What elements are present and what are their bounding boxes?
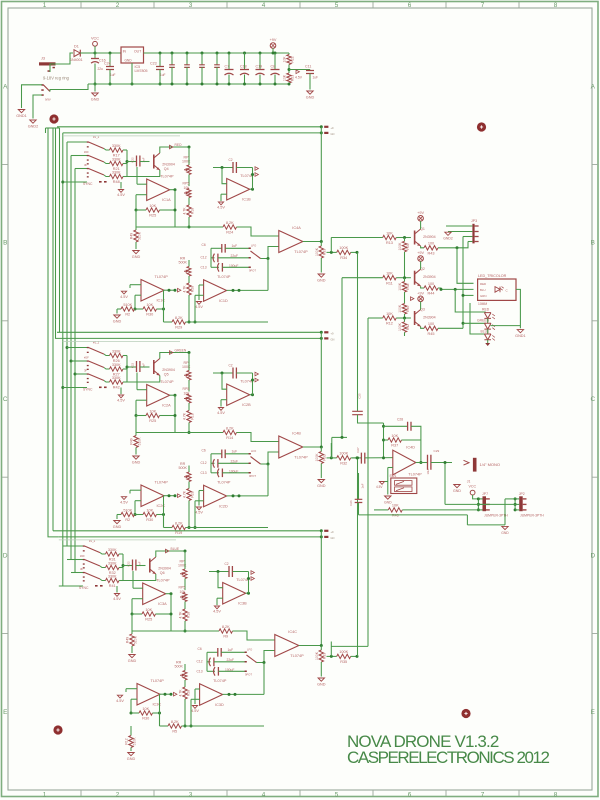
- resistor R34 100K mix IC4C: [337, 654, 351, 658]
- switch common to IC4A +input: [261, 247, 279, 259]
- capacitor C24 1uF: [109, 52, 112, 55]
- svg-text:100K: 100K: [178, 564, 187, 568]
- svg-text:IC1B: IC1B: [242, 198, 251, 202]
- svg-text:4.5V: 4.5V: [195, 511, 203, 515]
- svg-text:JUMPER-3PTH: JUMPER-3PTH: [520, 514, 544, 518]
- svg-text:R34: R34: [340, 256, 347, 260]
- ground below R49: [129, 655, 135, 658]
- regulator IC5 LM7805: [121, 47, 144, 63]
- output IC1C: [164, 289, 175, 291]
- svg-text:R25: R25: [145, 618, 152, 622]
- switch bank wire stubs IC1: [67, 141, 87, 143]
- SYNC pads IC3: [95, 585, 98, 587]
- svg-text:R38: R38: [406, 284, 410, 290]
- svg-text:R29: R29: [175, 326, 182, 330]
- svg-text:TL074P: TL074P: [294, 456, 308, 460]
- svg-text:R30: R30: [146, 313, 153, 317]
- svg-text:GND: GND: [127, 757, 136, 761]
- svg-text:IC3D: IC3D: [215, 703, 224, 707]
- range switch IC1: [249, 248, 251, 250]
- resistor R27 330K: [104, 368, 110, 370]
- svg-text:330K: 330K: [108, 574, 117, 578]
- switch group frame line IC2: [63, 340, 180, 342]
- switch group frame line IC1: [63, 135, 180, 137]
- resistor R33 100K vertical IC4A: [320, 242, 322, 247]
- svg-text:R43: R43: [428, 251, 435, 255]
- resistor R25 10K IC3: [132, 613, 142, 615]
- svg-text:IC1D: IC1D: [219, 299, 228, 303]
- svg-text:4.7K: 4.7K: [183, 207, 187, 215]
- net flag 4.5V under switches IC3: [116, 586, 118, 593]
- wire switch common to GND rail: [50, 84, 88, 92]
- svg-text:GND1: GND1: [16, 114, 27, 118]
- left bus vertical switch row 1 net: [66, 142, 68, 546]
- svg-text:GND: GND: [317, 484, 326, 488]
- svg-text:500K: 500K: [179, 261, 188, 265]
- capacitor C27 1uF coupling: [352, 457, 361, 459]
- left bus vertical to block2 pair high: [59, 128, 61, 332]
- output junction IC4B: [303, 446, 322, 448]
- svg-text:4.5V: 4.5V: [117, 193, 125, 197]
- svg-text:7: 7: [481, 791, 485, 798]
- resistor R21 330K: [104, 162, 110, 164]
- svg-text:9POT: 9POT: [245, 673, 252, 677]
- left bus vertical to block2 pair low: [56, 128, 63, 338]
- frame column ticks: [81, 2, 519, 796]
- svg-text:5: 5: [335, 2, 339, 9]
- svg-text:JP2: JP2: [519, 492, 525, 496]
- svg-text:R28: R28: [190, 286, 194, 292]
- wire block1 mix output down: [357, 252, 359, 411]
- svg-text:100K: 100K: [339, 452, 348, 456]
- svg-text:BLUE: BLUE: [171, 547, 180, 551]
- node output bus start IC4A: [320, 127, 322, 242]
- svg-text:10K: 10K: [142, 707, 149, 711]
- svg-text:C13: C13: [201, 471, 207, 475]
- svg-text:R45: R45: [428, 332, 435, 336]
- svg-text:C: C: [3, 396, 8, 403]
- feedback rail y227 IC2: [135, 416, 137, 433]
- resistor R34 100K mix IC4A: [337, 250, 351, 254]
- wire into IC4D input node: [383, 423, 385, 458]
- svg-text:1uF: 1uF: [228, 648, 234, 652]
- output jack J1 quarter inch mono: [464, 460, 470, 465]
- ground under SW1: [387, 488, 389, 495]
- svg-text:TL074P: TL074P: [151, 679, 165, 683]
- svg-text:E: E: [3, 709, 7, 716]
- svg-text:330K: 330K: [108, 548, 117, 552]
- switch common to IC4B +input: [261, 452, 279, 464]
- svg-text:510K: 510K: [132, 737, 136, 746]
- op-amp IC2D TL074P: [204, 485, 227, 507]
- svg-text:BLU: BLU: [480, 288, 486, 292]
- non-inverting input IC1B from 4.5V: [221, 193, 227, 195]
- svg-text:GN: GN: [331, 338, 335, 342]
- svg-text:R24: R24: [226, 231, 233, 235]
- op-amp IC1D TL074P: [204, 280, 227, 302]
- capacitor C23 1uF: [159, 52, 162, 55]
- ground at R2: [116, 515, 118, 520]
- resistor R17 330K: [104, 149, 110, 150]
- svg-text:4.7K: 4.7K: [183, 490, 187, 498]
- svg-text:R42: R42: [406, 324, 410, 330]
- capacitor C-osc IC1 1uF: [127, 161, 137, 163]
- svg-text:R9: R9: [223, 635, 228, 639]
- svg-text:22u: 22u: [98, 67, 104, 71]
- svg-text:R12: R12: [125, 738, 129, 744]
- svg-text:R30: R30: [146, 518, 153, 522]
- svg-text:R37: R37: [391, 444, 398, 448]
- svg-text:9-18V reg ring: 9-18V reg ring: [43, 76, 70, 81]
- svg-text:3F: 3F: [84, 163, 88, 167]
- svg-text:R44: R44: [428, 292, 435, 296]
- svg-text:D: D: [3, 553, 8, 560]
- svg-text:2: 2: [116, 2, 120, 9]
- op-amp IC3C TL074P: [137, 684, 160, 706]
- svg-text:4.7K: 4.7K: [183, 412, 187, 420]
- output IC2C: [164, 495, 175, 497]
- svg-text:510K: 510K: [133, 635, 137, 644]
- svg-text:C18: C18: [240, 65, 247, 69]
- svg-text:2N3904: 2N3904: [423, 235, 436, 239]
- svg-text:1/4" MONO: 1/4" MONO: [480, 462, 501, 467]
- ground below R33 IC4C: [318, 678, 324, 681]
- svg-text:GND: GND: [317, 278, 326, 282]
- net flag RED: [170, 145, 173, 149]
- non-inverting input IC3B from 4.5V: [217, 597, 223, 599]
- inverting input IC2B: [222, 373, 227, 389]
- svg-text:GND: GND: [317, 682, 326, 686]
- op-amp IC4C TL074P mixer buffer: [275, 635, 299, 657]
- LED stack cathode arrow: [487, 340, 489, 343]
- svg-text:R42: R42: [113, 386, 120, 390]
- transistor Q2 2N3904: [414, 271, 416, 285]
- svg-text:8: 8: [554, 791, 558, 798]
- output IC2D wire to switch column: [227, 495, 268, 497]
- svg-text:SYNC: SYNC: [83, 182, 93, 186]
- svg-text:#2F: #2F: [84, 355, 89, 359]
- net flag 4.5V at bias chain: [411, 297, 414, 301]
- svg-text:10MM: 10MM: [478, 302, 487, 306]
- resistor R31 330K: [100, 553, 106, 554]
- emitter wire of Q6: [123, 574, 156, 581]
- junction 330K common IC1: [126, 150, 128, 177]
- wire JP3 pin4 from Q1 emitter: [468, 241, 472, 243]
- svg-text:5: 5: [335, 791, 339, 798]
- svg-text:330K: 330K: [112, 349, 121, 353]
- output capacitor C29: [428, 455, 431, 470]
- op-amp IC2B TL074P: [227, 384, 250, 406]
- svg-text:2N3904: 2N3904: [423, 316, 436, 320]
- svg-text:1uF: 1uF: [232, 450, 238, 454]
- svg-text:100: 100: [428, 282, 434, 286]
- svg-text:7: 7: [481, 2, 485, 9]
- svg-text:1uF: 1uF: [160, 73, 166, 77]
- svg-text:4: 4: [262, 2, 266, 9]
- bus pair top of block IC1: [57, 126, 321, 128]
- resistor R12 10K base of Q3: [368, 317, 383, 319]
- svg-text:10K: 10K: [146, 303, 153, 307]
- wire block2 mix to summing: [332, 436, 347, 438]
- ground below R33 IC4B: [318, 480, 324, 483]
- svg-text:2N3904: 2N3904: [162, 368, 175, 372]
- svg-text:500K: 500K: [179, 466, 188, 470]
- frame row ticks: [2, 164, 598, 633]
- svg-text:+9V: +9V: [270, 38, 277, 42]
- svg-text:IN: IN: [123, 50, 127, 54]
- svg-text:IC3A: IC3A: [158, 602, 167, 606]
- svg-text:GND: GND: [501, 531, 509, 535]
- svg-text:GND: GND: [384, 500, 392, 504]
- svg-text:VCC: VCC: [91, 37, 99, 41]
- resistor R49 510K IC2: [135, 433, 137, 436]
- wire Q3 emitter to LED box GRN: [438, 327, 463, 329]
- svg-text:R32: R32: [340, 462, 347, 466]
- wire JP3 pin1: [446, 225, 472, 227]
- svg-text:510K: 510K: [137, 231, 141, 240]
- resistor R30 10K IC3: [131, 712, 140, 714]
- svg-text:8.2K: 8.2K: [222, 625, 230, 629]
- op-amp IC4D TL074P output: [393, 450, 416, 475]
- svg-text:C2: C2: [229, 158, 233, 162]
- potentiometer RP5 10K IC1: [188, 175, 190, 187]
- svg-text:10K: 10K: [145, 608, 152, 612]
- svg-text:C27: C27: [356, 447, 360, 453]
- svg-text:R33: R33: [323, 653, 327, 659]
- svg-text:B: B: [3, 240, 7, 247]
- svg-text:C12: C12: [197, 660, 203, 664]
- svg-text:R18: R18: [190, 413, 194, 419]
- svg-text:100K: 100K: [182, 160, 191, 164]
- resistor R33 100K vertical IC4B: [320, 447, 322, 452]
- svg-text:10K: 10K: [283, 56, 287, 63]
- svg-text:#2F: #2F: [84, 150, 89, 154]
- svg-text:R40: R40: [406, 306, 410, 312]
- op-amp IC3D TL074P: [200, 684, 223, 706]
- svg-text:R41: R41: [109, 584, 116, 588]
- svg-text:100: 100: [428, 322, 434, 326]
- transistor Q6 2N3904: [149, 559, 151, 573]
- resistor R49 510K IC1: [135, 227, 137, 230]
- VCC supply symbol: [93, 41, 98, 46]
- svg-text:4: 4: [262, 791, 266, 798]
- svg-text:C12: C12: [201, 461, 207, 465]
- net flag 4.5V divider: [296, 70, 299, 74]
- range switch IC2: [249, 453, 251, 455]
- svg-text:C6: C6: [198, 647, 202, 651]
- op-amp IC1C TL074P: [141, 280, 164, 302]
- svg-text:10K: 10K: [283, 74, 287, 81]
- svg-text:330K: 330K: [112, 363, 121, 367]
- resistor R28 4.7K vertical IC3: [184, 680, 186, 687]
- svg-text:3F: 3F: [80, 567, 84, 571]
- svg-text:100K: 100K: [398, 282, 402, 291]
- svg-text:R39: R39: [406, 243, 410, 249]
- svg-text:8.2K: 8.2K: [175, 316, 183, 320]
- svg-text:RED: RED: [480, 282, 486, 286]
- svg-text:4.5V: 4.5V: [195, 305, 203, 309]
- op-amp IC3A TL074P: [143, 583, 166, 605]
- range switch IC3: [245, 652, 247, 654]
- resistor R30 10K IC1: [135, 308, 144, 310]
- output IC3B with net flags: [246, 592, 249, 594]
- +9V supply at Q1 collector: [418, 216, 424, 222]
- svg-text:R33: R33: [323, 249, 327, 255]
- selector switch 2 of IC3: [83, 559, 85, 560]
- resistor R28 4.7K vertical IC1: [188, 276, 190, 283]
- svg-text:+9V: +9V: [417, 211, 424, 215]
- emitter wire of Q5: [127, 376, 160, 383]
- svg-text:GND: GND: [113, 525, 122, 529]
- svg-text:GND: GND: [453, 489, 461, 493]
- svg-text:1uF: 1uF: [110, 73, 116, 77]
- svg-text:10K: 10K: [386, 231, 393, 235]
- svg-text:GN: GN: [331, 536, 335, 540]
- inputs IC2C: [130, 489, 141, 491]
- svg-text:9POT: 9POT: [249, 474, 256, 478]
- op-amp IC1B TL074P: [227, 179, 250, 201]
- svg-text:#1_2: #1_2: [93, 135, 100, 139]
- +9V supply at Q3 collector: [418, 296, 424, 302]
- svg-text:GND: GND: [306, 95, 315, 99]
- resistor R26 330K: [104, 354, 110, 355]
- svg-text:#1_2: #1_2: [89, 539, 96, 543]
- svg-text:4.5V: 4.5V: [217, 411, 225, 415]
- op-amp IC4B TL074P mixer buffer: [279, 436, 303, 458]
- svg-text:TL074P: TL074P: [160, 380, 174, 384]
- wire to GND2: [33, 95, 42, 119]
- +9V supply at Q2 collector: [418, 256, 424, 262]
- inputs IC2D: [199, 490, 204, 492]
- svg-text:4.5V: 4.5V: [191, 709, 199, 713]
- ground below R49: [133, 251, 139, 254]
- svg-text:C13: C13: [197, 669, 203, 673]
- switch bank wire stubs IC2: [67, 347, 87, 349]
- svg-text:IC2C: IC2C: [157, 504, 166, 508]
- svg-text:B: B: [591, 240, 595, 247]
- svg-text:3: 3: [189, 2, 193, 9]
- non-inverting input IC4D: [388, 467, 393, 469]
- ground GND2: [30, 120, 36, 123]
- svg-text:RP5: RP5: [183, 181, 190, 185]
- bias resistor R39 100K vertical under Q1 base: [404, 238, 406, 242]
- svg-text:C24: C24: [104, 61, 111, 65]
- svg-text:Q5: Q5: [164, 373, 169, 377]
- bottom rail 8.2K IC2: [163, 515, 165, 528]
- non-inverting input IC2B from 4.5V: [221, 399, 227, 401]
- svg-text:TL074P: TL074P: [155, 275, 169, 279]
- input wires IC1A: [137, 183, 147, 185]
- svg-text:R49: R49: [126, 637, 130, 643]
- svg-text:+9V: +9V: [417, 291, 424, 295]
- ground below R12: [128, 753, 134, 756]
- svg-text:GND: GND: [113, 319, 122, 323]
- emitter resistor R43 100 of Q1: [421, 246, 424, 248]
- svg-text:R30: R30: [142, 717, 149, 721]
- capacitor C25 coupling block1: [352, 411, 363, 414]
- wire LED box common to GND1: [516, 289, 520, 328]
- wire block3 mix output up to summing node: [357, 458, 359, 657]
- svg-text:R22: R22: [290, 56, 294, 62]
- svg-text:TL074P: TL074P: [294, 250, 308, 254]
- svg-text:IC4B: IC4B: [292, 431, 301, 435]
- inputs IC1C: [130, 284, 141, 286]
- svg-text:Q4: Q4: [164, 167, 169, 171]
- resistor R18 4.7K vertical IC2: [188, 403, 190, 411]
- output IC2B with net flags: [250, 394, 253, 396]
- svg-text:TL074P: TL074P: [290, 654, 304, 658]
- svg-text:SYNC: SYNC: [79, 586, 89, 590]
- svg-text:100K: 100K: [315, 453, 319, 462]
- potentiometer RP5 10K IC2: [188, 380, 190, 392]
- svg-text:GN: GN: [331, 132, 335, 136]
- svg-text:A: A: [591, 83, 596, 90]
- svg-text:LFO: LFO: [251, 243, 256, 247]
- svg-text:TL074P: TL074P: [408, 472, 422, 476]
- svg-text:IC2A: IC2A: [162, 404, 171, 408]
- resistor R34 100K mix IC4B: [337, 456, 351, 460]
- output junction IC4C: [299, 645, 322, 647]
- SYNC pads IC1: [99, 181, 102, 183]
- left bus header: [46, 127, 60, 129]
- resistor R13 10K base of Q1: [331, 237, 382, 239]
- svg-text:10K: 10K: [386, 272, 393, 276]
- GND rail of power section: [88, 83, 289, 85]
- svg-text:D: D: [590, 553, 595, 560]
- svg-text:TL074P: TL074P: [156, 578, 170, 582]
- svg-text:BLUE: BLUE: [481, 330, 491, 334]
- wire JP2 pin1 to GND: [505, 498, 515, 500]
- svg-text:R46: R46: [392, 514, 399, 518]
- svg-text:8.2K: 8.2K: [226, 221, 234, 225]
- svg-text:IC1A: IC1A: [162, 198, 171, 202]
- resistor R42 330K: [104, 381, 110, 383]
- svg-text:6: 6: [408, 2, 412, 9]
- svg-text:IC4A: IC4A: [292, 226, 301, 230]
- resistor R33 100K vertical IC4C: [320, 646, 322, 651]
- capacitor C-osc IC2 1uF: [127, 366, 137, 368]
- svg-text:C26: C26: [349, 500, 353, 506]
- transistor Q1 2N3904: [414, 231, 416, 245]
- svg-text:4.5V: 4.5V: [376, 485, 383, 489]
- op-amp IC4A TL074P mixer buffer: [279, 231, 303, 253]
- op-amp IC2A TL074P: [147, 385, 170, 407]
- svg-text:100K: 100K: [182, 365, 191, 369]
- bias resistor R38 100K vertical under Q2 base: [404, 278, 406, 282]
- wire JP3 pin3 down to GRN: [463, 236, 472, 238]
- svg-text:4.5V: 4.5V: [117, 399, 125, 403]
- resistor R30 10K IC2: [135, 514, 144, 516]
- output IC1B with net flags: [250, 188, 253, 190]
- wire to jack tap down: [444, 463, 446, 505]
- +9V supply flag top right: [270, 43, 276, 49]
- bypass capacitors C2 C3 C9 C10: [171, 52, 174, 55]
- svg-text:RED: RED: [175, 143, 183, 147]
- svg-text:C22: C22: [127, 561, 131, 567]
- ground below C11: [307, 91, 313, 94]
- svg-text:1: 1: [43, 2, 47, 9]
- feedback capacitor IC3 integrator: [209, 571, 229, 573]
- svg-text:GND2: GND2: [28, 124, 39, 128]
- svg-text:TL074P: TL074P: [160, 174, 174, 178]
- wire left to GND1: [22, 85, 43, 108]
- svg-text:+9V: +9V: [417, 251, 424, 255]
- marker bottom-right: [461, 709, 470, 718]
- svg-text:E: E: [591, 709, 595, 716]
- svg-text:4.5V: 4.5V: [217, 206, 225, 210]
- svg-text:VCC: VCC: [469, 485, 477, 489]
- svg-text:RED: RED: [482, 307, 490, 311]
